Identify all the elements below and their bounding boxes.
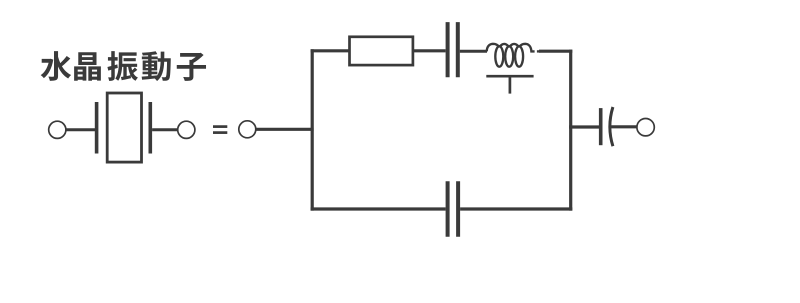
wire resistor to C1 [413, 49, 446, 52]
capacitor CL straight plate [599, 108, 603, 145]
wire bottom branch left [311, 207, 446, 210]
crystal X1 right electrode plate [149, 102, 153, 154]
wire left vertical (node A riser) [311, 49, 314, 210]
terminal T3 (equivalent circuit input) [239, 121, 256, 138]
inductor L1 core symbol (T) [486, 76, 533, 93]
resistor R1 [350, 37, 413, 65]
wire bottom branch right [460, 207, 572, 210]
crystal X1 quartz body rectangle [107, 93, 141, 162]
capacitor CL curved plate [610, 107, 613, 146]
label: text 水晶振動子 (crystal resonator) [41, 51, 206, 81]
inductor L1 coil [487, 44, 541, 67]
wire input to node A [256, 128, 314, 131]
terminal T2 (crystal right) [178, 121, 195, 138]
wire CL to output terminal [611, 125, 637, 128]
capacitor C0 left plate [446, 181, 450, 236]
capacitor C1 left plate [446, 22, 450, 77]
wire C1 to inductor L1 [460, 50, 487, 53]
capacitor C0 right plate [456, 181, 460, 236]
equals sign [213, 127, 227, 133]
wire right vertical (node B riser) [569, 50, 572, 211]
terminal T1 (crystal left) [49, 121, 66, 138]
wire crystal right plate to T2 [152, 128, 178, 131]
capacitor C1 right plate [456, 22, 460, 77]
crystal X1 left electrode plate [95, 102, 99, 154]
wire node B to CL [569, 125, 599, 128]
wire inductor to node B [539, 50, 572, 53]
wire T1 to crystal left plate [66, 128, 96, 131]
wire top branch to resistor [311, 49, 350, 52]
terminal T4 (output) [637, 119, 654, 136]
